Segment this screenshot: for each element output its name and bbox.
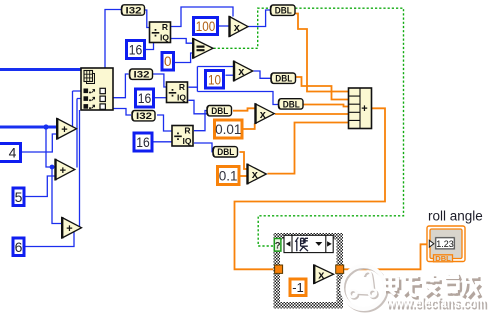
- case tunnel left orange: [275, 265, 283, 273]
- svg-text:4: 4: [9, 145, 17, 161]
- wire adder A2 out up to node row2: [77, 99, 81, 168]
- DBL bullet 3: [279, 99, 304, 110]
- wire junction chain to adders: [46, 127, 62, 224]
- adder A3: [62, 217, 82, 239]
- wire U1 R out to multiply M1 top: [171, 7, 234, 27]
- svg-text:100: 100: [196, 19, 216, 34]
- svg-text:x: x: [234, 22, 241, 34]
- I32 bullet B: [130, 69, 153, 80]
- adder A1: [57, 118, 77, 140]
- wire const 5 to adder A2: [26, 176, 56, 197]
- svg-text:DBL: DBL: [211, 106, 228, 116]
- watermark logo: [342, 266, 387, 311]
- svg-text:?: ?: [275, 241, 281, 252]
- svg-text:IQ: IQ: [183, 136, 192, 146]
- wire node top to I32 A: [105, 10, 121, 69]
- svg-text:16: 16: [138, 91, 152, 106]
- indicator roll angle: [427, 226, 465, 263]
- wire U2 Q out to DBL4: [189, 100, 208, 114]
- multiply M4: [247, 164, 266, 185]
- WIRES_BLUE: [22, 7, 279, 247]
- svg-text:6: 6: [15, 239, 23, 255]
- svg-text:IQ: IQ: [177, 93, 186, 103]
- const 0.1: [218, 167, 240, 185]
- const 5: [13, 188, 24, 206]
- wire const 6 to adder A3: [26, 231, 75, 247]
- svg-text:+: +: [61, 124, 67, 136]
- svg-text:x: x: [260, 109, 267, 121]
- svg-text:R: R: [162, 22, 168, 32]
- svg-text:DBL: DBL: [275, 6, 292, 16]
- wire DBL4 to M3: [233, 108, 255, 110]
- I32 bullet C: [132, 111, 155, 122]
- wire const 10 to M2: [226, 74, 234, 76]
- DBL bullet 2: [271, 73, 296, 84]
- wire const -1 to M5: [308, 279, 314, 287]
- svg-text:+: +: [361, 103, 367, 115]
- junction dot 2: [50, 165, 55, 170]
- wire adder A3 out up to node: [79, 110, 81, 227]
- wire I32 C out to quotient U3: [157, 115, 172, 131]
- const 0: [162, 53, 174, 71]
- DBL bullet 5: [213, 147, 238, 158]
- svg-text:I32: I32: [126, 5, 142, 15]
- wire U2 R out branch: [189, 67, 279, 105]
- wire case tunnel to M5: [283, 269, 314, 271]
- wire DBL3 to sum cell3: [303, 105, 349, 107]
- wire node row2 to I32 B: [111, 74, 129, 98]
- svg-text:16: 16: [136, 135, 150, 150]
- wire array input left: [0, 68, 81, 71]
- equals node: [193, 38, 213, 59]
- wire M3 out to sum cell4: [275, 113, 349, 115]
- const -1: [290, 279, 306, 296]
- svg-text:10: 10: [208, 72, 221, 87]
- multiply M5: [314, 265, 334, 285]
- svg-text:DBL: DBL: [283, 99, 300, 109]
- watermark url: [385, 296, 488, 314]
- junction dot 1: [43, 124, 48, 129]
- svg-text:www.elecfans.com: www.elecfans.com: [385, 296, 486, 312]
- wire const 16 B to U2: [155, 97, 167, 99]
- const 0.01: [215, 120, 243, 138]
- wire adder A1 out up to node row1: [73, 91, 82, 127]
- svg-text:+: +: [60, 165, 66, 177]
- svg-text:roll angle: roll angle: [428, 209, 483, 224]
- const 16 C: [134, 133, 152, 151]
- multiply M3: [255, 103, 274, 124]
- wire scalar input left: [0, 126, 57, 129]
- case tunnel right orange: [336, 265, 344, 273]
- svg-text:0.01: 0.01: [215, 122, 241, 137]
- wire M4 out to sum cell5: [268, 123, 349, 174]
- case structure border: [274, 233, 344, 309]
- WIRES_ORANGE: [233, 14, 428, 287]
- wire M2 out to DBL2: [254, 71, 271, 78]
- multiply M2: [234, 61, 253, 82]
- compound sum node: [349, 88, 372, 129]
- wire const 0.1 to M4: [241, 175, 248, 177]
- svg-text:÷: ÷: [168, 85, 176, 102]
- DBL bullet 1: [271, 5, 296, 16]
- wire const 0 to equals: [175, 53, 193, 63]
- wire I32 B out to quotient U2: [153, 74, 167, 87]
- svg-text:I32: I32: [136, 111, 152, 121]
- const 4: [0, 144, 21, 162]
- wire const 16 A to U1: [146, 43, 154, 50]
- quotient remainder U2: [167, 82, 188, 103]
- svg-text:+: +: [66, 223, 72, 235]
- watermark text brand: [384, 273, 481, 299]
- quotient remainder U1: [150, 22, 171, 43]
- svg-text:1.23: 1.23: [436, 239, 454, 249]
- svg-text:0: 0: [164, 54, 172, 69]
- const 6: [13, 238, 24, 256]
- DBL bullet 4: [207, 106, 232, 117]
- svg-text:16: 16: [129, 42, 143, 57]
- case tunnel question: [274, 239, 281, 252]
- wire const 100 to M1: [219, 25, 229, 27]
- wire const 0.01 to M3: [244, 124, 255, 130]
- wire U1 Q out to equals: [171, 39, 194, 44]
- wire boolean green dotted: [214, 8, 404, 246]
- svg-text:x: x: [318, 269, 325, 281]
- quotient remainder U3: [172, 126, 193, 147]
- case selector label: [284, 235, 333, 252]
- multiply M1: [229, 16, 248, 37]
- wire node row3 to I32 C: [111, 109, 131, 116]
- svg-text:R: R: [184, 126, 190, 136]
- svg-text:÷: ÷: [151, 25, 159, 42]
- svg-text:5: 5: [15, 189, 23, 205]
- wire DBL1 to sum cell1: [296, 14, 349, 92]
- index array node: [81, 68, 113, 110]
- svg-text:DBL: DBL: [435, 254, 451, 263]
- glyph jia (false): [295, 237, 308, 251]
- const 100: [194, 18, 218, 35]
- svg-text:I32: I32: [134, 70, 150, 80]
- wire U3 R out to DBL4: [194, 111, 207, 131]
- svg-text:0.1: 0.1: [219, 169, 238, 184]
- svg-text:-1: -1: [292, 280, 304, 295]
- svg-text:÷: ÷: [174, 128, 182, 145]
- wire case out to indicator: [344, 244, 428, 269]
- const 10: [206, 71, 224, 89]
- wire const 4 to adder A1: [22, 134, 57, 152]
- adder A2: [55, 159, 75, 181]
- wire U3 Q out to DBL5: [194, 143, 213, 152]
- svg-text:R: R: [179, 82, 185, 92]
- wire DBL5 to M4: [240, 152, 248, 169]
- svg-text:x: x: [252, 169, 259, 181]
- wire M1 out to DBL1: [248, 10, 270, 27]
- I32 bullet A: [122, 5, 145, 16]
- const 16 B: [136, 89, 154, 107]
- svg-text:IQ: IQ: [160, 33, 169, 43]
- svg-text:DBL: DBL: [217, 147, 234, 157]
- wire I32 A out to quotient U1: [145, 10, 150, 28]
- wire DBL2 to sum cell2: [296, 77, 349, 100]
- wire const 16 C to U3: [154, 141, 173, 143]
- svg-text:DBL: DBL: [275, 74, 292, 84]
- const 16 A: [127, 41, 145, 59]
- svg-text:x: x: [238, 66, 245, 78]
- wire M5 to right tunnel: [334, 273, 336, 275]
- wire sum out to case left tunnel: [235, 108, 386, 269]
